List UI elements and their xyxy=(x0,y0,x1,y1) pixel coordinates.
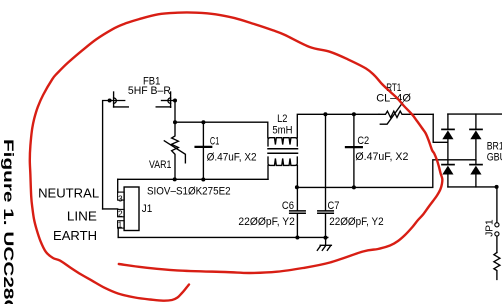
svg-text:22ØØpF, Y2: 22ØØpF, Y2 xyxy=(329,216,383,228)
diode D-bot-left triangle xyxy=(442,166,453,175)
resistor R zigzag bottom right xyxy=(494,253,500,280)
jumper JP1 circles xyxy=(495,223,499,227)
svg-text:GBU4J: GBU4J xyxy=(487,152,502,164)
junction C2 top xyxy=(352,112,356,116)
ground symbol xyxy=(325,238,327,246)
svg-text:5HF B–R: 5HF B–R xyxy=(128,85,171,97)
wire pin1 to earth bus xyxy=(117,228,119,237)
diode D-bot-right triangle xyxy=(470,166,481,175)
connector J1 body xyxy=(124,187,139,231)
bridge bottom rail xyxy=(448,186,497,188)
svg-text:2: 2 xyxy=(118,209,123,219)
svg-text:EARTH: EARTH xyxy=(53,229,97,243)
earth bus xyxy=(118,236,328,238)
capacitor C1 lead xyxy=(202,122,204,179)
red annotation loop xyxy=(30,12,443,300)
svg-text:Ø.47uF, X2: Ø.47uF, X2 xyxy=(207,151,257,163)
wire NEUTRAL to pin2 xyxy=(103,208,118,210)
thermistor RT1 arrow xyxy=(380,103,402,124)
wire L2 bottom-right riser / C6 lead xyxy=(296,165,298,210)
ferrite bead FB1 left half xyxy=(113,92,115,107)
svg-text:JP1: JP1 xyxy=(485,219,496,237)
wire L2 bottom-left riser xyxy=(267,165,269,179)
bridge right rail xyxy=(475,114,477,129)
wire FB1 down to bus xyxy=(174,101,176,123)
capacitor C7 leads xyxy=(325,114,327,210)
svg-text:5mH: 5mH xyxy=(272,125,292,137)
ferrite bead FB1 right half xyxy=(170,92,172,107)
svg-text:J1: J1 xyxy=(142,203,153,215)
bridge top rail xyxy=(448,113,502,115)
connector J1 pin 2 stub xyxy=(118,209,125,216)
junction C2 bottom xyxy=(352,185,356,189)
junction FB1 right pin xyxy=(173,99,177,103)
wire L2 top-right riser to top bus xyxy=(297,114,379,137)
connector J1 pin 1 stub xyxy=(118,221,125,228)
svg-text:Ø.47uF, X2: Ø.47uF, X2 xyxy=(355,151,408,163)
svg-text:22ØØpF, Y2: 22ØØpF, Y2 xyxy=(238,216,295,228)
junction bridge DC output xyxy=(495,185,499,189)
junction VAR1 top / line bus xyxy=(173,120,177,124)
svg-text:C1: C1 xyxy=(210,135,219,147)
jumper JP1 wire below xyxy=(496,236,498,252)
svg-text:Figure 1. UCC28C0: Figure 1. UCC28C0 xyxy=(1,139,16,304)
capacitor C6 plates xyxy=(290,210,306,212)
wire top bus to L2 xyxy=(175,122,268,138)
svg-text:3: 3 xyxy=(118,193,123,203)
wire FB1 right to junction xyxy=(162,100,176,102)
varistor VAR1 zigzag xyxy=(172,122,179,179)
svg-text:VAR1: VAR1 xyxy=(149,159,171,171)
diode D-bot-left bar xyxy=(442,164,454,166)
junction C6 earth xyxy=(295,236,299,240)
svg-text:LINE: LINE xyxy=(67,209,97,223)
wire line A lower bus xyxy=(118,178,268,180)
inductor L2 bottom winding xyxy=(268,157,297,165)
capacitor C1 plate xyxy=(196,146,212,148)
inductor L2 core xyxy=(268,148,298,150)
diode D-top-right bar xyxy=(470,128,482,130)
svg-text:C7: C7 xyxy=(328,200,340,212)
diode D-top-left triangle xyxy=(442,130,453,139)
diode D-bot-right bar xyxy=(470,164,482,166)
diode D-top-left bar xyxy=(442,128,454,130)
diode D-top-right triangle xyxy=(470,130,481,139)
svg-text:NEUTRAL: NEUTRAL xyxy=(38,186,99,200)
junction C7 earth / ground node xyxy=(324,236,328,240)
svg-text:L2: L2 xyxy=(277,113,287,125)
thermistor RT1 zigzag xyxy=(379,111,433,117)
svg-text:1: 1 xyxy=(118,219,123,229)
junction C1 bottom xyxy=(201,178,205,182)
junction C1 top xyxy=(201,120,205,124)
svg-text:C2: C2 xyxy=(357,135,369,147)
output wire to JP1 xyxy=(496,187,498,223)
svg-text:SIOV–S1ØK275E2: SIOV–S1ØK275E2 xyxy=(147,185,231,197)
junction C6 top / L2 out xyxy=(295,185,299,189)
wire line B to bridge AC2 xyxy=(297,160,476,188)
bridge left rail xyxy=(447,114,449,129)
wire AC1 into bridge xyxy=(433,114,448,142)
wire top-left horizontal (NEUTRAL to FB1) xyxy=(103,101,125,209)
capacitor C2 lead xyxy=(353,114,355,187)
varistor VAR1 arrow xyxy=(164,141,185,163)
inductor L2 top winding xyxy=(268,138,297,146)
capacitor C2 plate xyxy=(346,146,362,148)
capacitor C7 plates xyxy=(318,210,334,212)
junction VAR1 bottom xyxy=(173,177,177,181)
wire pin3 riser xyxy=(117,179,119,192)
junction FB1 left pin xyxy=(108,99,112,103)
junction C7 top xyxy=(323,112,327,116)
connector J1 pin 3 stub xyxy=(118,192,125,200)
svg-text:C6: C6 xyxy=(282,200,294,212)
